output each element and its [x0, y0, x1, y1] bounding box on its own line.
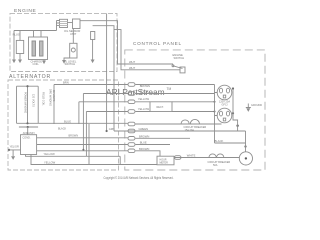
svg-text:GRN: GRN [109, 128, 115, 131]
svg-text:YELLOW: YELLOW [138, 97, 150, 101]
oil level switch [70, 43, 77, 58]
wire w8 GREEN [114, 130, 246, 132]
ground [12, 60, 16, 64]
junction dot [27, 126, 29, 128]
wire white [174, 157, 239, 159]
junction dot [232, 112, 234, 114]
alternator dashed box [8, 80, 119, 170]
DPE winding [53, 85, 55, 125]
svg-text:YELLOW: YELLOW [44, 152, 56, 156]
wire w11 BROWN [37, 151, 160, 156]
connector bullets column [128, 83, 135, 153]
receptacle left bus [215, 85, 218, 144]
wire w12 YELLOW [26, 155, 121, 157]
svg-text:30 VOLTS: 30 VOLTS [52, 90, 55, 102]
wire w9 BROWN [37, 137, 190, 140]
svg-text:YELLOW: YELLOW [138, 107, 150, 111]
svg-text:GREEN: GREEN [139, 127, 149, 131]
junction dot [82, 149, 84, 151]
winding top wire [17, 85, 39, 87]
receptacle right bus [232, 89, 234, 116]
svg-text:BLACK: BLACK [58, 128, 67, 131]
ground [62, 60, 66, 64]
junction dot [244, 145, 246, 147]
svg-text:120V 20AGFCI: 120V 20AGFCI [219, 101, 230, 107]
wire fuse to ground [92, 40, 94, 60]
wire plug to ground [19, 54, 21, 60]
breaker CB2 [190, 119, 199, 124]
svg-text:BROWN: BROWN [69, 134, 79, 137]
wire w4 YELLOW [86, 112, 214, 157]
wire switch to ground [64, 58, 70, 60]
wire w13 YELLOW [31, 155, 157, 165]
coil bar 2 [40, 41, 44, 56]
hour meter [157, 156, 174, 165]
svg-text:BLACK: BLACK [140, 90, 149, 94]
svg-text:BLACK: BLACK [215, 139, 224, 143]
receptacle R2 [217, 108, 232, 123]
wire v1 trunk [106, 13, 108, 131]
alternator winding mid leg [27, 86, 29, 123]
AVR box [21, 135, 37, 155]
spark plug [16, 40, 23, 53]
svg-text:RECT.: RECT. [157, 106, 165, 109]
svg-text:GROUND: GROUND [251, 104, 262, 107]
svg-text:ENGINESWITCH: ENGINESWITCH [173, 53, 185, 60]
alternator winding left leg [16, 86, 18, 123]
svg-text:CHARGECOIL: CHARGECOIL [31, 59, 43, 66]
svg-text:ARI PartStream: ARI PartStream [106, 87, 165, 97]
svg-text:BROWN: BROWN [139, 135, 149, 139]
ground [18, 60, 22, 64]
fuse [91, 32, 95, 40]
svg-text:YEL/GR: YEL/GR [10, 145, 19, 148]
svg-text:WHT: WHT [129, 60, 135, 64]
wire w3 YELLOW [79, 102, 215, 124]
svg-text:ALTERNATOR: ALTERNATOR [9, 74, 51, 80]
svg-text:Copyright © 2014 ARI Network S: Copyright © 2014 ARI Network Services. A… [104, 176, 174, 180]
breaker CB1 [181, 120, 189, 124]
connector bullet [175, 156, 182, 160]
svg-text:DPE WINDING: DPE WINDING [49, 89, 52, 106]
wire drop to yellow2 [88, 124, 90, 165]
connector stubs [57, 21, 73, 31]
ground [42, 61, 46, 65]
wire coil to ground [43, 60, 45, 61]
ground [91, 60, 95, 64]
junction dot [214, 111, 216, 113]
connector block [60, 19, 68, 27]
svg-text:POWER WINDING: POWER WINDING [23, 92, 26, 113]
svg-text:BLUE: BLUE [140, 141, 147, 145]
wire v5 drop [119, 156, 121, 164]
junction dot v1 green [106, 130, 108, 132]
junction dot [26, 85, 28, 87]
control panel dashed box [125, 50, 265, 170]
junction dot [232, 87, 234, 89]
junction dot [214, 101, 216, 103]
svg-text:WHITE: WHITE [187, 153, 196, 157]
panel ground [246, 104, 251, 108]
svg-text:YELLOW: YELLOW [44, 161, 56, 165]
svg-text:120 VOLTS: 120 VOLTS [31, 94, 34, 107]
wire v4 trunk to WHT2 [114, 30, 180, 70]
wire BLACK [215, 142, 246, 144]
wire harness top-left [14, 31, 57, 60]
stub dot green [236, 125, 238, 127]
relay box [150, 102, 172, 112]
windings sub rail [19, 126, 38, 128]
twistlock receptacle [239, 152, 252, 165]
svg-text:CIRCUIT BREAKER50A: CIRCUIT BREAKER50A [208, 161, 231, 167]
svg-text:OIL SENSORUNIT: OIL SENSORUNIT [64, 29, 80, 36]
wire w1 BRN [54, 84, 215, 86]
stub to AVR [27, 127, 29, 135]
svg-text:WHT: WHT [129, 66, 135, 70]
wire v2 trunk [93, 26, 114, 131]
oil sensor unit box [73, 19, 81, 29]
wire down to twistlock [245, 131, 247, 152]
ground [11, 156, 15, 160]
coil bar 1 [32, 41, 36, 56]
svg-text:BROWN: BROWN [139, 147, 149, 151]
svg-text:TM: TM [167, 87, 172, 91]
svg-text:BROWN: BROWN [140, 84, 150, 88]
wire w10 BLUE [37, 144, 170, 146]
junction dot [26, 122, 28, 124]
receptacle R1 [217, 85, 232, 100]
wire v3 trunk to WHT1 [80, 21, 173, 64]
svg-text:CONTROL PANEL: CONTROL PANEL [133, 41, 182, 46]
svg-text:BRN: BRN [63, 80, 69, 84]
svg-text:AVR ASSY: AVR ASSY [23, 132, 36, 135]
svg-text:HOURMETER: HOURMETER [160, 159, 169, 165]
wire w2 [83, 94, 214, 150]
breaker CB3 [209, 154, 224, 158]
wire sensor to switch [72, 29, 74, 44]
alternator winding right leg [37, 86, 39, 123]
svg-text:COND.: COND. [23, 136, 31, 139]
wire w7 BLUE windings rail to breakers [17, 122, 222, 125]
svg-text:FIELD COIL: FIELD COIL [41, 92, 44, 106]
svg-text:BLUE: BLUE [64, 119, 71, 123]
ignition coil box [29, 37, 48, 60]
engine dashed box [10, 13, 117, 71]
